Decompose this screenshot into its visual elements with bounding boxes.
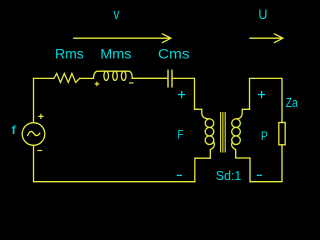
primary minus mark: [177, 174, 181, 176]
wire output arrow U: [250, 34, 283, 43]
wire left rail upper: [33, 78, 35, 122]
transformer primary top lead: [195, 109, 210, 119]
transformer core: [221, 113, 226, 153]
transformer secondary winding P: [232, 119, 241, 128]
wire bottom rail right: [250, 145, 282, 182]
source f circle: [22, 123, 45, 146]
load Za resistor box: [279, 123, 285, 145]
svg-text:Sd:1: Sd:1: [216, 168, 242, 183]
wire bottom rail left: [34, 145, 195, 181]
transformer primary bottom lead: [195, 142, 215, 182]
capacitor Cms: [168, 70, 172, 87]
inductor minus mark: [130, 82, 133, 84]
inductor plus mark: [95, 82, 99, 86]
svg-text:Mms: Mms: [100, 47, 132, 62]
svg-text:Za: Za: [286, 96, 298, 110]
source f sine: [28, 131, 40, 135]
primary plus mark: [179, 92, 185, 98]
wire Za branch upper: [250, 78, 283, 122]
wire capacitor to transformer primary: [173, 78, 195, 109]
svg-text:Rms: Rms: [55, 47, 84, 62]
secondary minus mark: [257, 174, 261, 176]
source plus mark: [39, 114, 43, 118]
transformer secondary bottom lead: [232, 142, 250, 182]
svg-text:F: F: [177, 127, 183, 141]
wire resistor to inductor: [80, 77, 94, 79]
source minus mark: [38, 150, 42, 152]
wire top rail left: [34, 77, 54, 79]
svg-text:P: P: [261, 129, 268, 143]
secondary plus mark: [259, 92, 265, 98]
svg-text:Cms: Cms: [158, 47, 190, 62]
transformer primary winding F: [205, 119, 214, 128]
resistor Rms: [54, 74, 80, 83]
svg-text:U: U: [258, 6, 267, 22]
inductor Mms: [94, 71, 133, 78]
wire velocity arrow v: [74, 34, 171, 43]
wire inductor to capacitor: [132, 77, 167, 79]
transformer secondary top lead: [236, 109, 250, 119]
svg-text:v: v: [114, 7, 120, 23]
